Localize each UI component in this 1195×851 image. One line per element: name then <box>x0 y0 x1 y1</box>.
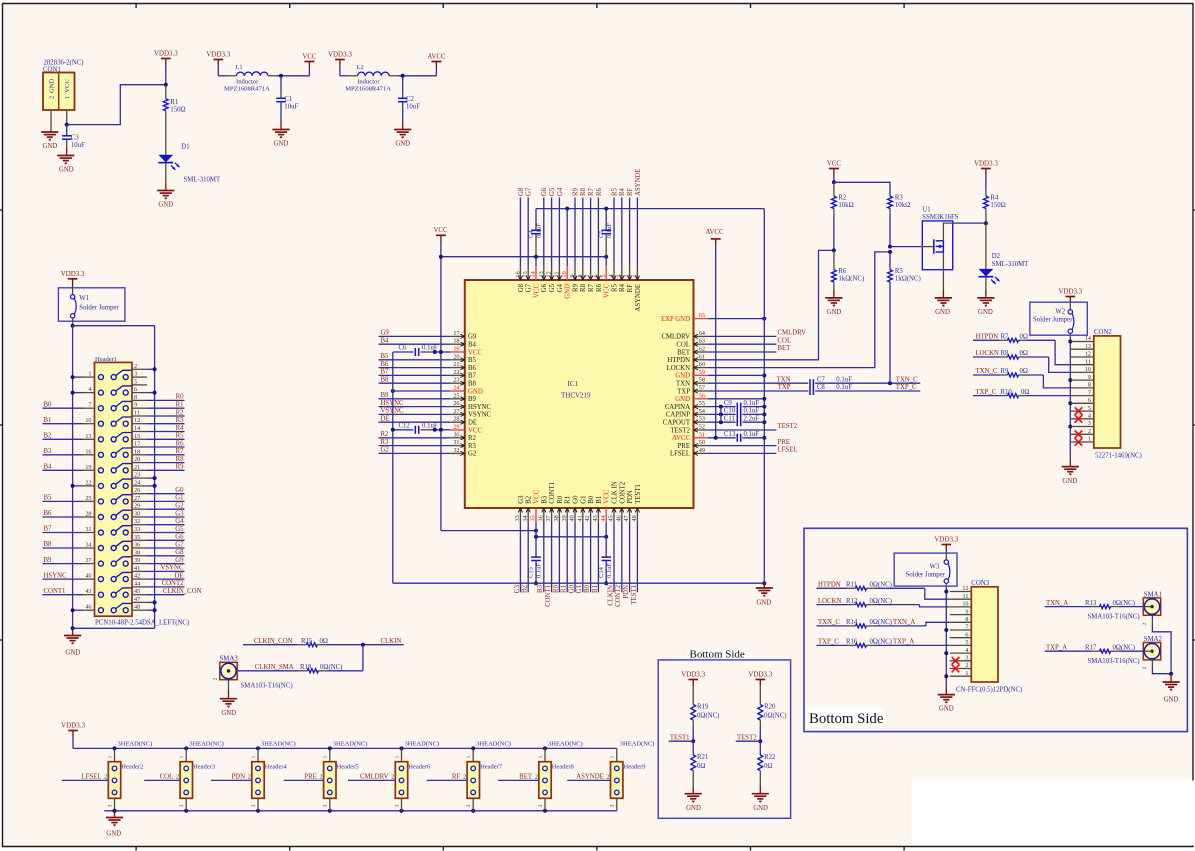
svg-text:GND: GND <box>274 141 289 148</box>
svg-text:35: 35 <box>530 515 537 521</box>
wire Header1 pin 24 to gnd trunk <box>147 485 155 487</box>
svg-text:R3: R3 <box>176 417 185 424</box>
svg-text:46: 46 <box>615 515 622 521</box>
svg-text:B9: B9 <box>381 392 390 399</box>
IC1 top pin 4 R5 <box>613 266 615 280</box>
node TEST2 <box>758 739 762 743</box>
IC1 bottom pin 42 B0 <box>590 508 592 523</box>
svg-text:R6: R6 <box>596 283 603 292</box>
wire IC1 top net R5 <box>613 198 615 267</box>
svg-text:G9: G9 <box>175 557 184 564</box>
svg-text:LFSEL: LFSEL <box>670 451 690 458</box>
svg-text:VDD3.3: VDD3.3 <box>974 160 998 168</box>
IC1 bottom pin 40 G0 <box>574 508 576 523</box>
svg-text:4: 4 <box>965 647 968 654</box>
Header1 row pins 19,20,21 <box>98 468 103 473</box>
capacitor C13 0.1uF on AVCC <box>708 437 736 439</box>
wire TXP_A to SMA2 with R17 <box>1045 650 1091 652</box>
svg-text:C4: C4 <box>528 230 535 238</box>
svg-text:2: 2 <box>48 96 55 99</box>
svg-text:20: 20 <box>453 353 459 360</box>
IC U1 body THCV219 <box>465 280 694 508</box>
wire PRE <box>708 445 777 447</box>
svg-text:B3: B3 <box>541 495 548 504</box>
svg-text:R21: R21 <box>697 754 708 761</box>
svg-text:14: 14 <box>134 425 140 432</box>
svg-text:CMLDRV: CMLDRV <box>360 774 389 781</box>
svg-text:B8: B8 <box>44 541 53 548</box>
svg-text:B9: B9 <box>468 396 477 403</box>
IC1 right pin 58 TXN <box>694 382 708 384</box>
svg-text:0.1uF: 0.1uF <box>744 431 760 438</box>
svg-text:12: 12 <box>546 271 553 277</box>
svg-text:62: 62 <box>699 346 705 353</box>
svg-text:1: 1 <box>107 755 113 758</box>
wire CON3 gnd trunk <box>945 592 947 689</box>
svg-text:GND: GND <box>565 284 572 299</box>
wire Header1 pin 14 net R4 <box>147 431 185 433</box>
wire Header1 pin 17 net R6 <box>147 446 185 448</box>
svg-text:TXP: TXP <box>778 384 791 391</box>
svg-text:17: 17 <box>453 330 459 337</box>
svg-text:4: 4 <box>608 274 615 277</box>
capacitor C14 0.1uF <box>605 523 607 558</box>
IC1 right pin 64 CMLDRV <box>694 335 708 337</box>
svg-text:32: 32 <box>134 518 140 525</box>
svg-text:4: 4 <box>88 386 91 393</box>
svg-text:R2: R2 <box>176 409 185 416</box>
svg-text:22: 22 <box>453 369 459 376</box>
Header1 row pins 31,32,33 <box>98 530 103 535</box>
svg-text:R2: R2 <box>838 194 847 201</box>
svg-text:EXP GND: EXP GND <box>661 316 690 323</box>
wire TEST2 <box>708 429 777 431</box>
wire TXN_A to SMA1 with R13 <box>1045 606 1091 608</box>
svg-text:VDD3.3: VDD3.3 <box>681 671 705 679</box>
node CLKIN junction <box>361 643 365 647</box>
CON2 pin 12 <box>1071 356 1094 358</box>
svg-text:42: 42 <box>584 515 591 521</box>
svg-text:2: 2 <box>176 774 179 781</box>
svg-text:10uF: 10uF <box>284 103 298 110</box>
svg-text:CLKIN_CON: CLKIN_CON <box>254 638 293 645</box>
wire Header1 pin 35 net G6 <box>147 539 185 541</box>
svg-text:R9: R9 <box>1001 368 1010 375</box>
wire GND rail above IC1 <box>536 208 764 210</box>
svg-text:VDD3.3: VDD3.3 <box>1058 288 1082 296</box>
capacitor C9 0.1uF <box>708 406 736 408</box>
svg-text:TXN_C: TXN_C <box>896 376 918 383</box>
svg-text:PDN: PDN <box>623 585 630 599</box>
Header1 row pins 7,8,9 <box>98 406 103 411</box>
CON2 pin 10 <box>1071 371 1094 373</box>
svg-text:13: 13 <box>1085 343 1091 350</box>
svg-text:3HEAD(NC): 3HEAD(NC) <box>620 741 655 748</box>
wire IC1 bottom net B1 <box>597 523 599 593</box>
IC1 left pin 32 G2 <box>450 452 465 454</box>
svg-text:0Ω: 0Ω <box>697 763 705 770</box>
svg-text:11: 11 <box>134 410 140 417</box>
svg-text:C14: C14 <box>598 566 605 578</box>
IC1 top pin 11 G4 <box>558 266 560 280</box>
IC1 top pin 2 RF <box>629 266 631 280</box>
svg-text:3: 3 <box>179 804 185 807</box>
capacitor C11 2.2uF <box>708 421 736 423</box>
ground D1 <box>157 190 174 192</box>
svg-text:B2: B2 <box>44 433 53 440</box>
svg-text:C3: C3 <box>71 135 80 142</box>
svg-text:G2: G2 <box>175 503 184 510</box>
wire IC1 bottom net G1 <box>582 523 584 593</box>
svg-text:R6: R6 <box>176 440 185 447</box>
svg-text:LFSEL: LFSEL <box>778 447 798 454</box>
wire IC1 bottom net TEST1 <box>636 523 638 593</box>
svg-text:G5: G5 <box>549 187 556 196</box>
svg-text:0.1uF: 0.1uF <box>744 408 760 415</box>
svg-text:TXP_C: TXP_C <box>896 384 917 391</box>
svg-text:PRE: PRE <box>678 443 690 450</box>
Bottom Side box right <box>804 528 1187 731</box>
svg-text:13: 13 <box>538 271 545 277</box>
svg-text:B0: B0 <box>588 495 595 504</box>
capacitor C10 0.1uF <box>708 413 736 415</box>
svg-text:G4: G4 <box>557 187 564 196</box>
svg-text:1: 1 <box>538 755 544 758</box>
svg-text:14: 14 <box>530 271 537 277</box>
wire Header1 pin 32 net G4 <box>147 524 185 526</box>
svg-text:10: 10 <box>561 271 568 277</box>
wire Header1 pin 15 net R5 <box>147 438 185 440</box>
svg-text:B0: B0 <box>44 401 53 408</box>
wire IC1 left net R3 <box>379 445 451 447</box>
wire Header1 pin 21 net R9 <box>147 469 185 471</box>
CON2 pin 3 <box>1071 426 1094 428</box>
IC1 bottom pin 46 CONT2 <box>621 508 623 523</box>
svg-text:3: 3 <box>1088 420 1091 427</box>
svg-text:B6: B6 <box>44 510 53 517</box>
svg-text:HTPDN: HTPDN <box>667 357 690 364</box>
svg-text:10kΩ: 10kΩ <box>838 202 853 209</box>
svg-text:0Ω(NC): 0Ω(NC) <box>870 619 892 626</box>
svg-text:VCC: VCC <box>827 161 841 168</box>
wire net COL to Header3 <box>144 779 180 781</box>
svg-text:R10: R10 <box>1001 389 1013 396</box>
svg-text:27: 27 <box>453 408 459 415</box>
wire Header1 pin 2 to gnd trunk <box>147 368 155 370</box>
wire IC1 top net G7 <box>527 198 529 267</box>
IC1 left pin 19 VCC <box>450 351 465 353</box>
svg-text:46: 46 <box>85 604 91 611</box>
wire IC1 top net R4 <box>621 198 623 267</box>
wire Header1 pin 12 net R3 <box>147 423 185 425</box>
svg-text:B1: B1 <box>44 417 52 424</box>
wire IC1 left net DE <box>379 421 451 423</box>
node L2/C2 junction <box>401 74 405 78</box>
svg-text:1: 1 <box>466 755 472 758</box>
svg-text:0Ω: 0Ω <box>1020 368 1028 375</box>
svg-text:R15: R15 <box>301 638 313 645</box>
svg-text:R4: R4 <box>619 283 626 292</box>
wire SMA2 shield to GND <box>1151 660 1153 666</box>
CON2 pin 14 <box>1071 341 1094 343</box>
svg-text:G7: G7 <box>526 283 533 292</box>
resistor R5 1k(NC) <box>889 252 891 270</box>
wire Header1 pin 48 to gnd trunk <box>147 609 155 611</box>
IC1 bottom pin 35 VCC <box>535 508 537 523</box>
Bottom Side box middle <box>687 648 749 660</box>
svg-text:CAPOUT: CAPOUT <box>663 420 691 427</box>
wire IC1 top net R8 <box>582 198 584 267</box>
svg-text:GND: GND <box>59 167 74 174</box>
wire BET <box>708 351 777 353</box>
wire TXN_C to CON2 pin8 <box>973 374 999 376</box>
wire Header1 pin 45 net CLKIN_CON <box>147 594 185 596</box>
svg-text:B1: B1 <box>596 496 603 504</box>
CON3 pin 12 <box>950 591 972 593</box>
svg-text:VDD3.3: VDD3.3 <box>748 671 772 679</box>
ground CON3 <box>945 688 947 694</box>
svg-text:45: 45 <box>134 588 140 595</box>
svg-text:GND: GND <box>43 143 58 150</box>
svg-text:38: 38 <box>553 515 560 521</box>
svg-text:VDD3.3: VDD3.3 <box>328 51 352 59</box>
svg-text:B8: B8 <box>468 381 477 388</box>
svg-text:1kΩ(NC): 1kΩ(NC) <box>838 275 864 282</box>
IC1 bottom pin 34 B2 <box>527 508 529 523</box>
svg-text:W2: W2 <box>1055 308 1065 315</box>
svg-text:R9: R9 <box>572 283 579 292</box>
svg-text:R0: R0 <box>557 495 564 504</box>
svg-text:11: 11 <box>553 272 560 278</box>
svg-text:AVCC: AVCC <box>705 229 723 236</box>
svg-text:R5: R5 <box>611 283 618 292</box>
svg-text:CAPINA: CAPINA <box>665 404 690 411</box>
CON3 pin 9 <box>950 614 972 616</box>
IC1 bottom pin 41 G1 <box>582 508 584 523</box>
CON3 pin 11 <box>950 598 972 600</box>
wire TXP_C to CON2 pin7 <box>973 395 999 397</box>
ground CON2 <box>1069 460 1071 466</box>
svg-text:2.2uF: 2.2uF <box>744 415 760 422</box>
svg-text:25: 25 <box>453 392 459 399</box>
Header1 row pins 40,41,42 <box>98 577 103 582</box>
IC1 right pin 52 TEST2 <box>694 429 708 431</box>
svg-text:39: 39 <box>134 557 140 564</box>
svg-text:TXP_C: TXP_C <box>818 639 839 646</box>
ground R21 <box>685 793 702 795</box>
svg-text:HTPDN: HTPDN <box>818 582 841 589</box>
svg-text:CLK IN: CLK IN <box>612 481 619 504</box>
ground D2 <box>977 297 994 299</box>
svg-text:TXP_A: TXP_A <box>1046 644 1067 651</box>
svg-text:17: 17 <box>134 441 140 448</box>
svg-text:C9: C9 <box>724 400 733 407</box>
svg-text:2: 2 <box>320 774 323 781</box>
svg-text:31: 31 <box>453 439 459 446</box>
wire HTPDN to CON2 pin11 <box>973 339 999 341</box>
svg-text:0.1uF: 0.1uF <box>422 423 438 430</box>
Header1 row pins 28,29,30 <box>98 515 103 520</box>
svg-text:L1: L1 <box>236 64 243 71</box>
svg-text:6: 6 <box>1088 397 1091 404</box>
wire IC1 left net B5 <box>379 359 451 361</box>
svg-text:CONT2: CONT2 <box>619 481 626 504</box>
ground C1 <box>272 129 289 131</box>
svg-text:TXN_C: TXN_C <box>818 619 840 626</box>
svg-text:1kΩ(NC): 1kΩ(NC) <box>895 275 921 282</box>
svg-text:3HEAD(NC): 3HEAD(NC) <box>118 741 153 748</box>
wire VCC to R3 <box>834 182 890 196</box>
svg-text:VCC: VCC <box>604 489 611 503</box>
svg-text:9: 9 <box>569 274 576 277</box>
capacitor C6 0.1uF <box>393 351 414 353</box>
CON2 pin 7 <box>1071 395 1094 397</box>
svg-text:51: 51 <box>699 431 705 438</box>
wire Header1 pin 41 net VSYNC <box>147 570 185 572</box>
svg-text:GND: GND <box>675 396 690 403</box>
svg-text:39: 39 <box>561 515 568 521</box>
svg-text:GND: GND <box>756 600 771 607</box>
svg-text:D1: D1 <box>181 143 189 150</box>
IC1 top pin 12 G5 <box>551 266 553 280</box>
svg-text:1: 1 <box>394 755 400 758</box>
svg-text:45: 45 <box>608 515 615 521</box>
svg-text:R8: R8 <box>176 456 185 463</box>
svg-text:R1: R1 <box>170 99 178 106</box>
svg-text:GND: GND <box>106 831 121 838</box>
capacitor C12 0.1uF <box>393 429 414 431</box>
svg-text:G4: G4 <box>175 518 184 525</box>
IC1 bottom pin 43 B1 <box>597 508 599 523</box>
svg-text:CLKIN: CLKIN <box>381 638 402 645</box>
svg-text:0.1uF: 0.1uF <box>606 223 613 238</box>
IC1 top pin 6 R6 <box>597 266 599 280</box>
IC1 top pin 3 R4 <box>621 266 623 280</box>
svg-text:0Ω(NC): 0Ω(NC) <box>1113 644 1135 651</box>
wire Header1 pin 44 net CONT2 <box>147 586 185 588</box>
capacitor C1 10uF <box>280 76 282 94</box>
wire IC1 bottom net PDN <box>629 523 631 593</box>
svg-text:Header3: Header3 <box>193 764 215 771</box>
svg-text:7: 7 <box>1088 389 1091 396</box>
svg-text:0Ω(NC): 0Ω(NC) <box>320 664 342 671</box>
svg-text:R16: R16 <box>846 639 858 646</box>
wire IC1 top net G5 <box>551 198 553 267</box>
svg-text:150Ω: 150Ω <box>170 107 185 114</box>
svg-text:Bottom Side: Bottom Side <box>809 711 884 727</box>
CON3 pin 4 <box>950 652 972 654</box>
svg-text:W1: W1 <box>79 295 89 302</box>
svg-text:10: 10 <box>85 417 91 424</box>
svg-text:R8: R8 <box>580 187 587 196</box>
svg-text:LOCKN: LOCKN <box>818 598 842 605</box>
svg-text:20: 20 <box>134 456 140 463</box>
IC1 left pin 29 VCC <box>450 429 465 431</box>
svg-text:CONT1: CONT1 <box>44 588 66 595</box>
IC1 left pin 28 DE <box>450 421 465 423</box>
wire Header1 pin 36 net G7 <box>147 547 185 549</box>
svg-text:29: 29 <box>453 424 459 431</box>
svg-text:GND: GND <box>66 650 81 657</box>
wire net ASYNDE to Header9 <box>567 779 610 781</box>
svg-text:CLKIN_SMA: CLKIN_SMA <box>255 664 294 671</box>
svg-text:G9: G9 <box>381 330 390 337</box>
IC1 bottom pin 38 R0 <box>558 508 560 523</box>
svg-text:B5: B5 <box>381 353 390 360</box>
IC1 left pin 22 B7 <box>450 374 465 376</box>
svg-text:24: 24 <box>453 385 459 392</box>
connector Header8 3HEAD(NC) <box>543 746 547 750</box>
IC1 left pin 23 B8 <box>450 382 465 384</box>
svg-text:0.1uF: 0.1uF <box>836 384 852 391</box>
svg-text:GND: GND <box>935 309 950 316</box>
CON2 pin 8 <box>1071 387 1094 389</box>
svg-text:COL: COL <box>778 337 792 344</box>
svg-text:Header8: Header8 <box>552 764 574 771</box>
svg-text:58: 58 <box>699 377 705 384</box>
svg-text:DE: DE <box>381 415 390 422</box>
capacitor C3 10uF <box>66 125 68 136</box>
svg-text:R5: R5 <box>895 268 904 275</box>
svg-text:40: 40 <box>569 515 576 521</box>
svg-text:0.1uF: 0.1uF <box>836 376 852 383</box>
svg-text:10uF: 10uF <box>71 142 85 149</box>
wire TXN_C/TXN_A to CON3 pin8 <box>817 625 848 627</box>
ground SMA3 <box>220 698 237 700</box>
svg-text:1: 1 <box>251 755 257 758</box>
ground C3 <box>57 155 74 157</box>
svg-text:GND: GND <box>221 710 236 717</box>
svg-text:R7: R7 <box>176 448 185 455</box>
connector Header7 3HEAD(NC) <box>471 746 475 750</box>
wire net PRE to Header5 <box>284 779 324 781</box>
svg-text:R13: R13 <box>1085 600 1097 607</box>
IC1 right pin 55 CAPINA <box>694 406 708 408</box>
svg-text:C12: C12 <box>399 423 411 430</box>
svg-text:0.1uF: 0.1uF <box>536 223 543 238</box>
svg-text:VDD3.3: VDD3.3 <box>61 722 85 730</box>
IC1 right pin 49 LFSEL <box>694 452 708 454</box>
svg-text:CONT1: CONT1 <box>549 482 556 504</box>
CON3 pin 2 <box>950 668 972 670</box>
IC1 left pin 24 GND <box>450 390 465 392</box>
svg-text:R1: R1 <box>561 585 568 593</box>
svg-text:42: 42 <box>134 573 140 580</box>
svg-text:28: 28 <box>85 511 91 518</box>
wire GND pin56 <box>708 398 764 400</box>
svg-text:11: 11 <box>1085 358 1091 365</box>
svg-text:CON2: CON2 <box>1094 329 1112 336</box>
svg-text:28: 28 <box>453 416 459 423</box>
svg-text:VSYNC: VSYNC <box>160 565 184 572</box>
wire CMLDRV <box>708 335 777 337</box>
svg-text:Header9: Header9 <box>624 764 646 771</box>
resistor R22 0ohm <box>759 741 761 755</box>
svg-text:VCC: VCC <box>302 53 316 60</box>
IC1 left pin 30 R2 <box>450 437 465 439</box>
node VDD junction R1 <box>164 83 168 87</box>
Header1 row pins 34,35,36 <box>98 546 103 551</box>
svg-text:0Ω: 0Ω <box>1021 389 1029 396</box>
svg-text:CONT2: CONT2 <box>615 584 622 607</box>
wire IC1 top net G4 <box>558 198 560 267</box>
svg-text:LOCKN: LOCKN <box>667 365 691 372</box>
svg-text:GND: GND <box>468 388 483 395</box>
IC1 right pin 65 EXP GND <box>694 318 708 320</box>
svg-text:6: 6 <box>592 274 599 277</box>
ground C2 <box>394 129 411 131</box>
IC1 right pin 54 CAPINP <box>694 413 708 415</box>
